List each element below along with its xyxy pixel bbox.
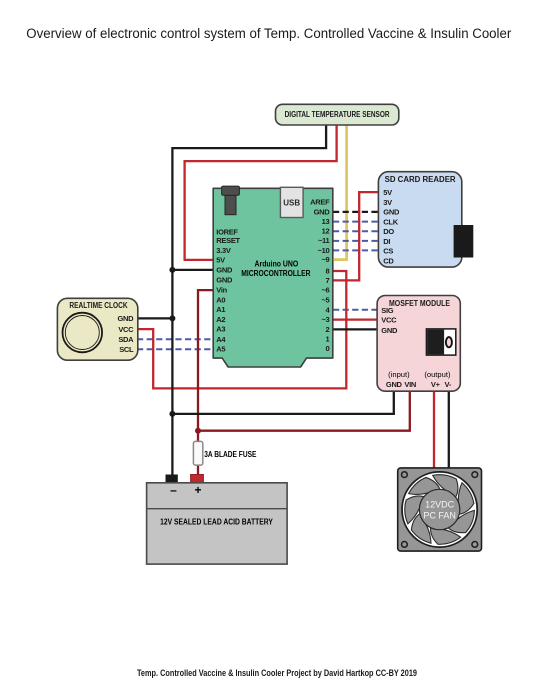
svg-text:GND: GND: [381, 326, 398, 335]
svg-text:3A BLADE FUSE: 3A BLADE FUSE: [204, 449, 256, 459]
coin cell battery: [63, 313, 103, 353]
svg-text:CS: CS: [383, 247, 393, 256]
svg-text:A0: A0: [216, 295, 225, 304]
wire bright red MOSFET V+ to fan: [433, 390, 435, 469]
svg-text:A1: A1: [216, 305, 225, 314]
svg-text:~10: ~10: [318, 246, 330, 255]
wire blue dashed A4 to SDA: [137, 338, 213, 340]
fuse F1: [193, 441, 256, 465]
wire black ground net sensor to battery minus with branches: [137, 124, 394, 477]
svg-text:8: 8: [326, 267, 330, 276]
svg-text:GND: GND: [216, 275, 233, 284]
screw hole top-left: [402, 472, 408, 478]
wire black MOSFET V- to fan: [448, 390, 450, 469]
svg-text:+: +: [194, 483, 201, 497]
svg-text:DI: DI: [383, 237, 390, 246]
svg-text:SDA: SDA: [118, 335, 134, 344]
svg-text:0: 0: [326, 344, 330, 353]
svg-text:CLK: CLK: [383, 218, 398, 227]
svg-text:~3: ~3: [321, 315, 329, 324]
svg-text:(input): (input): [388, 370, 410, 379]
svg-text:~5: ~5: [321, 296, 329, 305]
wire bright red sensor VDD to 5V: [185, 124, 337, 260]
wire blue dashed 4 to SIG: [333, 309, 379, 311]
arduino uno board: [213, 186, 333, 367]
svg-text:5V: 5V: [383, 188, 392, 197]
svg-text:MOSFET MODULE: MOSFET MODULE: [389, 299, 450, 308]
svg-text:Overview of electronic control: Overview of electronic control system of…: [26, 26, 511, 42]
svg-text:DO: DO: [383, 227, 394, 236]
svg-text:A4: A4: [216, 335, 226, 344]
svg-text:3.3V: 3.3V: [216, 246, 231, 255]
svg-text:GND: GND: [386, 380, 403, 389]
svg-text:GND: GND: [383, 208, 400, 217]
svg-text:IOREF: IOREF: [216, 227, 238, 236]
svg-text:2: 2: [326, 325, 330, 334]
screw hole bottom-left: [402, 542, 408, 548]
svg-text:V-: V-: [445, 380, 452, 389]
junction dot dark red at fuse top: [195, 428, 201, 434]
svg-text:A3: A3: [216, 325, 225, 334]
battery terminals: [166, 475, 204, 483]
svg-text:USB: USB: [283, 198, 300, 207]
svg-text:SD CARD READER: SD CARD READER: [385, 175, 456, 184]
wire blue dashed 13 to CLK: [333, 221, 380, 223]
power jack: [225, 195, 236, 214]
svg-text:3V: 3V: [383, 198, 392, 207]
digital temperature sensor box: [276, 104, 399, 125]
svg-text:SCL: SCL: [119, 345, 134, 354]
svg-text:12VDC: 12VDC: [425, 500, 455, 510]
junction dot GND at mosfet branch: [169, 411, 175, 417]
sd card slot: [454, 225, 474, 258]
svg-text:~11: ~11: [318, 236, 330, 245]
svg-text:SIG: SIG: [381, 306, 393, 315]
fan blades: [397, 466, 482, 549]
wire yellow sensor-data to pin ~9: [334, 124, 347, 260]
svg-text:~6: ~6: [321, 286, 329, 295]
svg-text:RESET: RESET: [216, 236, 240, 245]
plus terminal: [191, 475, 204, 483]
svg-text:MICROCONTROLLER: MICROCONTROLLER: [241, 268, 311, 278]
svg-text:~9: ~9: [321, 255, 329, 264]
svg-text:CD: CD: [383, 257, 394, 266]
svg-text:12V SEALED LEAD ACID BATTERY: 12V SEALED LEAD ACID BATTERY: [160, 517, 273, 527]
svg-text:–: –: [170, 483, 177, 497]
svg-text:V+: V+: [431, 380, 441, 389]
svg-text:GND: GND: [314, 208, 331, 217]
svg-text:13: 13: [322, 217, 330, 226]
svg-text:Vin: Vin: [216, 286, 227, 295]
svg-text:(output): (output): [424, 370, 451, 379]
SD card reader box: [378, 172, 473, 267]
wire blue dashed ~11 to DI: [333, 240, 380, 242]
svg-text:12: 12: [322, 226, 330, 235]
mosfet module: [377, 296, 460, 392]
12VDC PC fan: [397, 466, 482, 551]
svg-text:GND: GND: [216, 266, 233, 275]
junction dot GND at arduino: [169, 267, 175, 273]
fan ring: [402, 472, 477, 547]
svg-text:GND: GND: [118, 314, 135, 323]
screw hole top-right: [472, 472, 478, 478]
svg-text:VCC: VCC: [118, 325, 134, 334]
svg-text:DIGITAL TEMPERATURE SENSOR: DIGITAL TEMPERATURE SENSOR: [285, 110, 390, 119]
mosfet transistor icon: [426, 329, 455, 355]
svg-text:PC FAN: PC FAN: [423, 510, 456, 520]
battery 12V sealed lead acid: [147, 483, 288, 564]
svg-text:A5: A5: [216, 344, 225, 353]
junction dot GND at rtc: [169, 315, 175, 321]
minus terminal: [166, 475, 178, 483]
usb connector: [280, 187, 303, 217]
svg-text:A2: A2: [216, 315, 225, 324]
wire black dashed GND to SD GND: [333, 211, 380, 213]
svg-text:Temp. Controlled Vaccine & Ins: Temp. Controlled Vaccine & Insulin Coole…: [137, 668, 417, 678]
svg-text:REALTIME CLOCK: REALTIME CLOCK: [69, 301, 128, 310]
svg-text:AREF: AREF: [310, 197, 330, 206]
wire bright red RTC VCC to pin 8: [137, 271, 346, 388]
wire blue dashed A5 to SCL: [137, 348, 213, 350]
svg-text:VIN: VIN: [404, 380, 416, 389]
fan hub: [419, 489, 459, 529]
svg-text:VCC: VCC: [381, 316, 397, 325]
svg-text:Arduino UNO: Arduino UNO: [255, 258, 299, 268]
wire black pin 2 to MOSFET GND: [333, 328, 379, 330]
wire dark red battery plus fuse Vin VIN net: [198, 290, 410, 477]
realtime clock module: [57, 298, 137, 360]
svg-text:1: 1: [326, 334, 330, 343]
wire bright red SD 5V to pin 7: [333, 192, 380, 280]
screw hole bottom-right: [472, 542, 478, 548]
wire bright red pin ~3 to MOSFET VCC: [333, 318, 379, 320]
wire blue dashed ~10 to CS: [333, 249, 380, 251]
wire blue dashed 12 to DO: [333, 230, 380, 232]
svg-text:7: 7: [326, 276, 330, 285]
svg-text:5V: 5V: [216, 256, 225, 265]
